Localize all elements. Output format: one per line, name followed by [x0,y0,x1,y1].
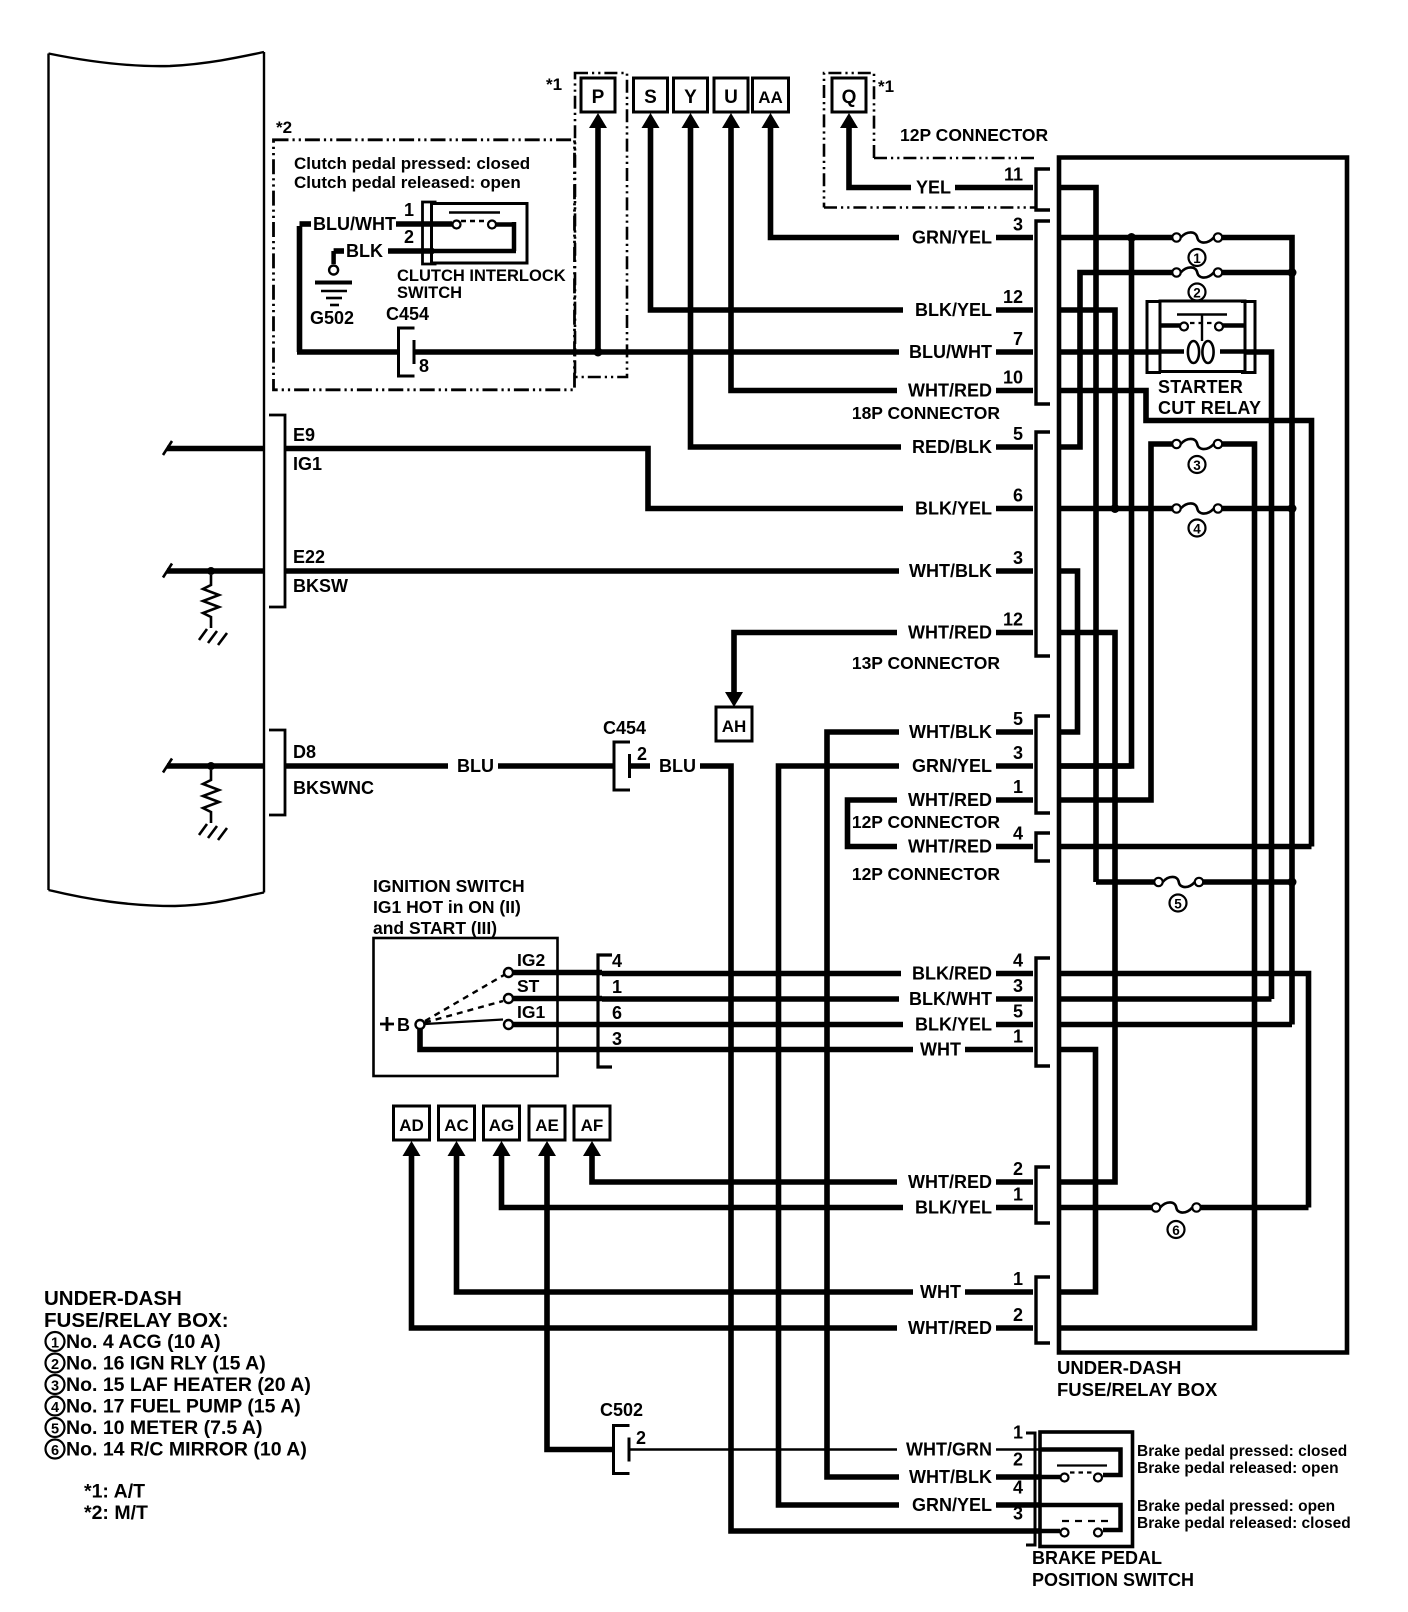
svg-text:C502: C502 [600,1400,643,1420]
svg-text:YEL: YEL [916,178,951,198]
wire D8 stub in ECM [167,763,264,769]
svg-text:2: 2 [404,227,414,247]
svg-text:4: 4 [1013,824,1023,844]
svg-text:GRN/YEL: GRN/YEL [912,1495,992,1515]
svg-text:C454: C454 [386,304,429,324]
svg-text:BLK/WHT: BLK/WHT [909,989,992,1009]
label RED/BLK (row 5) [901,438,996,456]
clutch switch internal link (right contact to pin 2) [496,222,514,227]
svg-text:UNDER-DASH: UNDER-DASH [44,1287,182,1310]
connector box AF [574,1106,610,1140]
ignition IG2 contact [504,968,513,977]
svg-text:AH: AH [722,717,747,736]
wire BLU/WHT from C454 to fuse box pin 7 [415,349,1034,355]
dashed rotor +B to IG2 [425,975,504,1021]
svg-text:P: P [592,87,605,108]
svg-text:WHT/BLK: WHT/BLK [909,722,992,742]
wire WHT pins 1-1 link [1057,1050,1096,1293]
label BLU/WHT (row 7) [899,343,996,361]
wire IG2 out [513,970,602,976]
label GRN/YEL (row 3b) [899,757,996,775]
junction dot GRN/YEL bus [1127,233,1136,242]
arrow into AA [762,113,780,128]
svg-text:AA: AA [758,88,783,107]
svg-text:POSITION SWITCH: POSITION SWITCH [1032,1570,1194,1590]
wire E22-BKSW WHT/BLK row 3 [285,568,1033,574]
bracket 12P (pin 11) [1036,169,1050,210]
node E22 resistor tap [207,567,215,575]
label BLU (D8 row) [448,757,498,775]
wire WHT/RED pin10 under relay [1057,391,1312,847]
svg-text:WHT: WHT [920,1282,961,1302]
bracket 12P (pin 4) [1036,833,1050,861]
svg-text:3: 3 [1013,743,1023,763]
svg-text:IGNITION SWITCH: IGNITION SWITCH [373,876,525,896]
svg-text:SWITCH: SWITCH [397,284,462,302]
fuse 1 (No.4 ACG) [1172,233,1180,241]
svg-text:No. 17 FUEL PUMP (15 A): No. 17 FUEL PUMP (15 A) [66,1396,301,1418]
svg-text:WHT/RED: WHT/RED [908,623,992,643]
fuse 2 (No.16 IGN RLY) [1172,268,1180,276]
wire BLU from C454 down to brake pedal pin 3 [630,766,1040,1531]
clutch switch armature bar [449,211,500,213]
svg-text:IG2: IG2 [517,950,545,970]
A/T option frame around P (*1, dash-dot) [575,73,627,377]
svg-text:*1: A/T: *1: A/T [84,1481,145,1503]
wire AG to BLK/YEL row 1 [502,1155,1034,1208]
bracket 13P (pins 5,6,3,12) [1036,432,1050,656]
ground G502 symbol [329,266,338,275]
svg-text:BLU/WHT: BLU/WHT [909,342,992,362]
wire U column to WHT/RED row [731,127,1033,391]
svg-text:BLK/YEL: BLK/YEL [915,300,992,320]
relay armature bar [1177,313,1227,315]
svg-text:IG1: IG1 [517,1002,545,1022]
rotor +B to IG1 [425,1020,503,1025]
ignition connector bracket [598,955,612,1067]
label WHT/BLK (row 3) [899,562,996,580]
svg-text:*2: *2 [276,118,292,137]
wire IG1 out [513,1022,602,1028]
wire S column to BLK/YEL row [651,127,1034,310]
wire AC to WHT row 1 [457,1155,1034,1292]
svg-text:3: 3 [612,1029,622,1049]
svg-text:WHT/RED: WHT/RED [908,1318,992,1338]
clutch switch dashed actuation [461,220,488,222]
wire WHT/BLK row 5 down to brake pedal pin 2 [827,732,1040,1477]
junction dot fuse5/V4 [1288,878,1297,887]
svg-text:WHT/RED: WHT/RED [908,1172,992,1192]
wire WHT/RED jumper pins 1-4 [848,800,1034,847]
svg-text:7: 7 [1013,329,1023,349]
svg-text:6: 6 [612,1003,622,1023]
svg-text:Brake pedal pressed: closed: Brake pedal pressed: closed [1137,1443,1347,1460]
label +B [380,1017,394,1031]
brake pedal position switch body [1040,1432,1133,1547]
wire AD to WHT/RED row 2b [412,1155,1034,1328]
svg-text:1: 1 [1013,1423,1023,1443]
wire fuse2 feed V3 [1057,273,1173,448]
relay contact left [1180,323,1188,331]
label WHT/RED (row 1) [897,791,996,809]
wire P column [595,127,601,352]
svg-text:Clutch pedal pressed: closed: Clutch pedal pressed: closed [294,154,530,173]
brake switch upper contacts [1061,1474,1069,1482]
wire GRN/YEL into fuse 1 [1057,235,1173,241]
wire GRN/YEL row 3 down to brake pedal pin 4 [779,766,1041,1505]
svg-text:FUSE/RELAY BOX:: FUSE/RELAY BOX: [44,1309,229,1332]
wire clutch common to C454 [297,349,398,355]
svg-text:WHT/RED: WHT/RED [908,790,992,810]
svg-text:2: 2 [636,1428,646,1448]
brake pedal connector bracket [1026,1433,1035,1545]
svg-text:*1: *1 [878,77,894,96]
label WHT/GRN (brake 1) [897,1441,996,1459]
connector box AE [529,1106,565,1140]
svg-text:13P CONNECTOR: 13P CONNECTOR [852,653,1001,673]
starter cut relay body [1160,301,1245,372]
svg-text:STARTER: STARTER [1158,377,1243,397]
dashed rotor +B to ST [425,1001,503,1023]
label BLK/RED (row 4) [901,965,996,983]
M/T option box (*2, dash-dot) [274,140,575,390]
fuse 4 (No.17 FUEL PUMP) [1172,504,1180,512]
svg-text:B: B [397,1015,410,1035]
label fuse 2 [1189,284,1206,301]
legend fuse 1 [46,1332,65,1351]
svg-text:1: 1 [404,200,414,220]
label WHT/RED (row 2) [897,1173,996,1191]
svg-text:Y: Y [684,87,697,108]
wire fuse2 out [1222,270,1292,276]
label fuse 1 [1189,249,1206,266]
svg-text:2: 2 [637,744,647,764]
svg-text:1: 1 [612,977,622,997]
svg-text:6: 6 [51,1443,59,1459]
wire WHT row 1 [602,1047,1033,1053]
legend fuse 2 [46,1354,65,1373]
svg-text:6: 6 [1013,486,1023,506]
wire BLK/WHT row 3 [602,996,1033,1002]
svg-text:IG1 HOT in ON (II): IG1 HOT in ON (II) [373,897,521,917]
arrow into P [589,113,607,128]
wire BLK to clutch pin 2 [334,248,344,254]
brake switch upper pin2 lead [1040,1475,1060,1480]
svg-text:5: 5 [1174,897,1182,912]
label BLK/YEL (row 6) [903,500,996,518]
svg-text:S: S [644,87,657,108]
svg-text:RED/BLK: RED/BLK [912,437,992,457]
svg-text:FUSE/RELAY BOX: FUSE/RELAY BOX [1057,1379,1218,1400]
svg-text:2: 2 [1013,1305,1023,1325]
svg-text:BLK/RED: BLK/RED [912,964,992,984]
svg-text:GRN/YEL: GRN/YEL [912,228,992,248]
svg-text:and START (III): and START (III) [373,918,497,938]
fuse 3 (No.15 LAF HEATER) [1172,440,1180,448]
svg-text:Brake pedal pressed: open: Brake pedal pressed: open [1137,1498,1335,1515]
svg-text:2: 2 [51,1357,59,1373]
wire WHT/RED pin1 to fuse3 [1057,444,1173,800]
bracket (pins 1,2) [1036,1277,1050,1343]
svg-text:E9: E9 [293,425,315,445]
relay contact right [1215,323,1223,331]
svg-text:3: 3 [1013,1504,1023,1524]
svg-text:No. 14 R/C MIRROR (10 A): No. 14 R/C MIRROR (10 A) [66,1439,307,1461]
wire BLK/RED pin4 to V8 [1057,974,1309,1208]
wire BLK/YEL pin5 to V4 [1057,1022,1292,1028]
ground arrow below E22 resistor [199,629,227,645]
svg-text:GRN/YEL: GRN/YEL [912,756,992,776]
label fuse 4 [1189,520,1206,537]
svg-text:WHT/BLK: WHT/BLK [909,1467,992,1487]
wire fuse6 out [1201,1205,1309,1211]
svg-text:1: 1 [1013,777,1023,797]
wire BLU/WHT to clutch pin 1 [300,221,312,227]
svg-text:3: 3 [1193,458,1201,473]
svg-text:18P CONNECTOR: 18P CONNECTOR [852,403,1001,423]
legend fuse 6 [46,1440,65,1459]
svg-text:4: 4 [51,1400,59,1416]
svg-text:*1: *1 [546,75,562,94]
connector box AD [394,1106,430,1140]
arrow into Q [840,113,858,128]
svg-text:CLUTCH INTERLOCK: CLUTCH INTERLOCK [397,267,566,285]
wire BLK/RED row 4 [602,971,1033,977]
label WHT/RED (row 2b) [897,1319,996,1337]
svg-text:BKSWNC: BKSWNC [293,778,374,798]
svg-text:1: 1 [1193,251,1201,266]
arrow into AH [725,692,743,707]
svg-text:12P CONNECTOR: 12P CONNECTOR [852,864,1001,884]
svg-text:1: 1 [51,1336,59,1352]
arrow into U [722,113,740,128]
svg-text:AF: AF [581,1116,604,1135]
label fuse 6 [1168,1221,1185,1238]
label BLK/YEL (row 12) [903,301,996,319]
svg-text:BLU/WHT: BLU/WHT [313,214,396,234]
wire E9-IG1 to BLK/YEL row 6 [285,449,1033,509]
clutch interlock switch body [432,204,528,264]
under-dash fuse/relay box outline [1059,158,1347,1353]
svg-text:*2: M/T: *2: M/T [84,1502,148,1524]
svg-text:3: 3 [1013,215,1023,235]
label fuse 5 [1170,895,1187,912]
svg-text:12P CONNECTOR: 12P CONNECTOR [852,812,1001,832]
svg-text:ST: ST [517,976,540,996]
node D8 resistor tap [207,762,215,770]
svg-text:4: 4 [1013,1478,1023,1498]
A/T option frame around Q (*1, dash-dot) [824,73,874,208]
wire BLK/YEL pin1 through fuse 6 [1057,1205,1152,1211]
label fuse 3 [1189,456,1206,473]
svg-text:BLU: BLU [457,756,494,776]
wire D8-BKSWNC BLU to C454 [285,763,614,769]
brake switch upper dashes [1070,1471,1094,1473]
relay plunger [1201,315,1203,342]
junction dot fuse4/V4 [1288,504,1297,513]
connector box P [581,78,615,112]
relay coil loops [1188,341,1199,363]
svg-text:1: 1 [1013,1027,1023,1047]
svg-text:WHT/GRN: WHT/GRN [906,1440,992,1460]
junction dot P column / BLU-WHT [594,348,603,357]
svg-text:BLK: BLK [346,241,383,261]
svg-text:BLK/YEL: BLK/YEL [915,1015,992,1035]
svg-text:BLK/YEL: BLK/YEL [915,1198,992,1218]
svg-text:BRAKE PEDAL: BRAKE PEDAL [1032,1548,1162,1568]
connector C502 (pin 2) [614,1426,630,1474]
svg-text:C454: C454 [603,718,646,738]
svg-text:UNDER-DASH: UNDER-DASH [1057,1357,1181,1378]
bracket ignition feed (pins 4,3,5,1) [1036,958,1050,1066]
junction dot fuse2/V4 [1288,268,1297,277]
arrow into AC [448,1141,466,1156]
wire AF to WHT/RED row 2 [592,1155,1033,1182]
arrow into AF [583,1141,601,1156]
svg-text:2: 2 [1193,286,1201,301]
svg-text:4: 4 [612,951,622,971]
label YEL (row 11) [911,179,955,197]
svg-text:2: 2 [1013,1450,1023,1470]
ground arrow below D8 resistor [199,824,227,840]
label GRN/YEL (brake 4) [899,1496,996,1514]
svg-text:4: 4 [1013,951,1023,971]
svg-text:No. 15 LAF HEATER (20 A): No. 15 LAF HEATER (20 A) [66,1374,311,1396]
svg-text:No. 16 IGN RLY (15 A): No. 16 IGN RLY (15 A) [66,1353,266,1375]
svg-text:5: 5 [1013,709,1023,729]
svg-text:10: 10 [1003,368,1023,388]
svg-text:12P CONNECTOR: 12P CONNECTOR [900,125,1049,145]
svg-text:E22: E22 [293,547,325,567]
connector box S [634,78,668,112]
bracket 18P (pins 3,12,7,10) [1036,221,1050,404]
svg-text:BKSW: BKSW [293,576,348,596]
wire GRN/YEL bus V2 [1057,238,1132,767]
svg-text:3: 3 [51,1379,59,1395]
wire BLK/YEL row6 through fuse 4 [1057,506,1173,512]
connector box Y [674,78,708,112]
svg-text:AG: AG [489,1116,515,1135]
wire BLK/YEL row 5 [602,1022,1033,1028]
svg-text:No. 10 METER (7.5 A): No. 10 METER (7.5 A) [66,1417,262,1439]
ECM box (left, torn edges) [49,52,265,66]
wire YEL bus V1 [1057,188,1096,883]
svg-text:BLK/YEL: BLK/YEL [915,499,992,519]
svg-text:Q: Q [842,87,857,108]
wire WHT/RED pin4 long row [1057,844,1312,850]
label BLK/WHT (row 3i) [899,990,996,1008]
relay contact leads [1160,323,1180,328]
resistor R-BKSWNC (pull-up on D8) [203,770,219,823]
label BLK/YEL (row 5i) [903,1016,996,1034]
connector C454 (pin 8) [399,328,415,376]
wire fuse3 out to WHT/RED pin2 [1057,444,1255,1328]
svg-text:WHT: WHT [920,1040,961,1060]
wire WHT/GRN thin to brake pedal pin 1 [630,1448,1041,1451]
ignition IG1 contact [504,1020,513,1029]
arrow into AE [538,1141,556,1156]
connector box AG [484,1106,520,1140]
legend fuse 5 [46,1418,65,1437]
label BLK/YEL (row 1b) [903,1199,996,1217]
svg-text:Brake pedal released: closed: Brake pedal released: closed [1137,1515,1351,1532]
connector box AA [753,78,789,112]
label WHT/BLK (row 5) [899,723,996,741]
svg-text:U: U [724,87,738,108]
junction dot V5/fuse4 row [1111,504,1120,513]
wire BLK/YEL row12 to V5 [1057,310,1115,509]
wire fuse5 out [1203,879,1292,885]
fuse 6 (No.14 R/C MIRROR) [1152,1203,1160,1211]
svg-text:3: 3 [1013,976,1023,996]
svg-text:WHT/BLK: WHT/BLK [909,561,992,581]
svg-text:No. 4 ACG (10 A): No. 4 ACG (10 A) [66,1331,221,1353]
connector box Q [832,78,866,112]
wire ST out [513,996,602,1002]
brake switch lower internal (pin4 loop) [1040,1505,1121,1530]
label WHT (row 1c) [913,1283,965,1301]
arrow into S [642,113,660,128]
svg-text:G502: G502 [310,308,354,328]
wire WHT/RED row 12 to AH arrow [734,633,1033,693]
wire BLU/WHT to relay coil [1057,349,1160,355]
label WHT/BLK (brake 2) [899,1468,996,1486]
starter cut relay bracket left [1147,302,1161,373]
brake switch lower pin3 lead [1040,1529,1060,1534]
svg-text:2: 2 [1013,1159,1023,1179]
svg-text:5: 5 [1013,424,1023,444]
starter cut relay bracket right [1241,302,1255,373]
svg-text:D8: D8 [293,742,316,762]
wire AA column to GRN/YEL row [771,127,1034,238]
svg-text:IG1: IG1 [293,454,322,474]
wire E22 stub in ECM [167,568,264,574]
connector box AC [439,1106,475,1140]
connector box AH [716,707,752,741]
wire fuse4 out [1222,506,1292,512]
fuse 5 (No.10 METER) [1154,878,1162,886]
bracket (pins 2,1) [1036,1167,1050,1223]
svg-text:WHT/RED: WHT/RED [908,381,992,401]
brake switch lower dashes [1062,1520,1108,1522]
legend fuse 3 [46,1375,65,1394]
label GRN/YEL (row 3) [899,229,996,247]
wire GRN/YEL pin3 in-box [1057,763,1132,769]
connector bracket D (pin D8) [269,730,285,815]
svg-text:BLU: BLU [659,756,696,776]
svg-text:11: 11 [1004,165,1023,185]
connector C454 (pin 2) [614,742,630,790]
clutch switch contact right [488,221,496,229]
legend fuse 4 [46,1397,65,1416]
label WHT/RED (row 10) [897,382,996,400]
arrow into AD [403,1141,421,1156]
label BLU (after C454) [650,757,700,775]
svg-text:5: 5 [1013,1002,1023,1022]
connector box U [714,78,748,112]
svg-text:WHT/RED: WHT/RED [908,837,992,857]
label WHT/RED (row 12) [897,624,996,642]
svg-text:8: 8 [419,356,429,376]
wire +B to WHT row [420,1029,602,1050]
relay coil leads [1160,349,1184,354]
brake switch upper armature [1057,1464,1107,1466]
wire Q column to YEL row [849,127,1033,188]
svg-text:5: 5 [51,1422,59,1438]
relay contact dashes [1190,322,1214,324]
label WHT/RED (row 4) [897,838,996,856]
resistor R-BKSW (pull-up on E22) [203,575,219,628]
